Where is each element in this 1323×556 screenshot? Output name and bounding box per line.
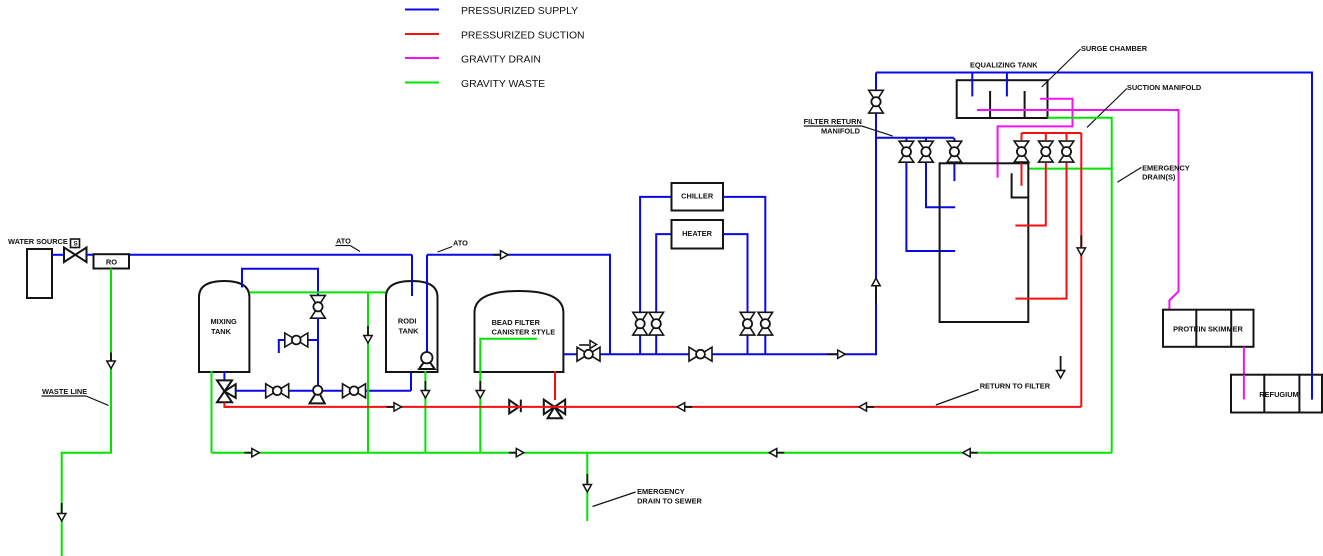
svg-text:TANK: TANK: [211, 327, 232, 336]
pipe: chiller loop left riser (blue): [639, 335, 641, 354]
valve V11 on riser: [869, 90, 884, 101]
svg-text:GRAVITY WASTE: GRAVITY WASTE: [461, 79, 545, 90]
legend swatch: pressurized suction (red): [405, 33, 439, 35]
pipe: pump suction/discharge line (blue): [236, 390, 411, 392]
svg-text:RODI: RODI: [398, 317, 416, 326]
valve V16 suction 2: [1039, 141, 1054, 152]
pipe: bead filter outlet (blue): [563, 353, 876, 355]
pipe: waste line drop to bottom edge (green): [61, 452, 63, 556]
arrow: bead filter drain flow down: [479, 381, 481, 391]
valve V8 chiller right: [758, 312, 773, 323]
pipe: emergency drain to sewer drop (green): [586, 453, 588, 521]
legend swatch: gravity drain (magenta): [405, 57, 439, 59]
pipe: stub branch with valve (blue): [308, 339, 318, 341]
svg-text:ATO: ATO: [453, 239, 468, 248]
pipe: overflow branch down to waste main (green): [367, 292, 369, 452]
leader: suction manifold label: [1087, 89, 1127, 128]
leader: emergency drain to sewer label: [593, 492, 636, 507]
valve V2 on stub branch: [285, 333, 297, 347]
valve V7 heater left: [649, 312, 664, 323]
valve V17 suction 3: [1059, 141, 1074, 152]
svg-text:SUCTION MANIFOLD: SUCTION MANIFOLD: [1127, 83, 1202, 92]
svg-text:RO: RO: [106, 258, 117, 267]
arrow: suction flow down: [1080, 235, 1082, 248]
svg-text:PROTEIN SKIMMER: PROTEIN SKIMMER: [1173, 325, 1243, 334]
pipe: bead filter bottom suction (red): [554, 371, 556, 400]
arrow: ATO line flow right: [493, 254, 501, 256]
pipe: suction drop 3 into sump (red): [1015, 163, 1066, 299]
svg-text:REFUGIUM: REFUGIUM: [1259, 390, 1298, 399]
pipe: sump emergency drain branch (green): [1028, 168, 1111, 170]
pipe: skimmer outlet to refugium (magenta): [1243, 347, 1245, 400]
pipe: manifold drop 2 into sump (blue): [926, 162, 955, 207]
svg-text:BEAD FILTER: BEAD FILTER: [492, 318, 541, 327]
pipe: heater loop right return (blue): [723, 234, 748, 312]
water source tank: [27, 249, 52, 298]
valve V1 on mixing tank fill: [311, 295, 326, 306]
svg-text:WASTE LINE: WASTE LINE: [42, 387, 87, 396]
pipe: supply drop into refugium (blue) - redraw over box: [1311, 375, 1313, 400]
pipe: waste line bottom jog (green): [62, 452, 112, 454]
leader: surge chamber label: [1042, 49, 1081, 87]
arrow: RODI drain flow down: [424, 381, 426, 391]
protein skimmer divider 2: [1230, 310, 1232, 347]
equalizing tank box: [957, 80, 1048, 118]
arrow: return flow right near pump: [387, 406, 395, 408]
pipe: mixing tank to RODI tank overflow (green): [249, 291, 386, 293]
pipe: manifold drop 1 stub (blue): [905, 138, 907, 142]
equalizing tank divider 2: [1024, 91, 1026, 117]
leader: return to filter label: [936, 390, 979, 406]
CHILLER box: [672, 183, 724, 211]
pipe: chiller loop right return (blue): [723, 197, 765, 312]
svg-text:FILTER RETURN: FILTER RETURN: [804, 117, 862, 126]
3-way valve at mixing tank bottom: [217, 380, 232, 391]
legend swatch: pressurized supply (blue): [405, 9, 439, 11]
leader: emergency drains label: [1117, 167, 1141, 182]
arrow: waste line flow down: [110, 353, 112, 362]
pipe: mixing tank bottom outlet (blue): [223, 371, 225, 381]
svg-text:ATO: ATO: [336, 237, 351, 246]
svg-text:EQUALIZING TANK: EQUALIZING TANK: [970, 61, 1038, 70]
svg-text:CHILLER: CHILLER: [681, 192, 714, 201]
pipe: bead filter internal drain (green): [480, 339, 537, 453]
svg-text:PRESSURIZED SUPPLY: PRESSURIZED SUPPLY: [461, 6, 578, 17]
pipe: suction drop 2 stub (red): [1045, 133, 1047, 140]
pipe: suction main down to return (red): [1080, 133, 1082, 407]
pipe: main riser up to return manifold (blue): [875, 73, 877, 356]
pipe: gravity drain to protein skimmer (magenta): [977, 110, 1179, 312]
arrow: waste flow left 2: [970, 452, 978, 454]
pipe: equalizing tank emergency drain (green): [1048, 118, 1112, 453]
svg-text:SURGE CHAMBER: SURGE CHAMBER: [1081, 44, 1148, 53]
pipe: suction drop 1 stub (red): [1021, 133, 1023, 140]
solenoid valve S: [64, 248, 75, 263]
leader: waste line label: [86, 396, 109, 405]
svg-text:WATER SOURCE: WATER SOURCE: [8, 237, 68, 246]
arrow: riser flow up: [875, 285, 877, 303]
valve V3 on pump line: [266, 384, 278, 398]
arrow: overflow branch flow down: [367, 326, 369, 336]
mixing tank vessel: [199, 281, 249, 372]
pipe: RO waste line down (green): [110, 269, 112, 453]
leader: ATO right label: [438, 247, 453, 253]
svg-text:MANIFOLD: MANIFOLD: [821, 127, 861, 136]
pipe: manifold drop 3 stub (blue): [953, 138, 955, 142]
svg-text:DRAIN TO SEWER: DRAIN TO SEWER: [637, 496, 702, 505]
arrow: free flow indicator down: [1060, 356, 1062, 371]
svg-text:CANISTER STYLE: CANISTER STYLE: [492, 327, 556, 336]
valve V9 heater right: [740, 312, 755, 323]
pipe: suction drop 3 stub (red): [1066, 133, 1068, 140]
arrow: main supply flow right: [827, 353, 838, 355]
valve V6 chiller left: [633, 312, 648, 323]
svg-text:TANK: TANK: [399, 327, 420, 336]
equalizing tank divider 1: [989, 91, 991, 117]
pipe: mixing tank left drain (green): [211, 371, 213, 453]
arrow: waste drop flow down: [61, 503, 63, 514]
arrow: return flow left near sump: [866, 406, 874, 408]
refugium divider 2: [1298, 375, 1300, 413]
pipe: equalizing tank feed 1 (blue): [971, 73, 973, 97]
pipe: ATO supply line to system (blue): [427, 255, 610, 354]
legend swatch: gravity waste (green): [405, 82, 439, 84]
pipe: surge chamber drain to sump (magenta): [998, 99, 1073, 178]
pipe: top supply line to refugium (blue): [876, 73, 1312, 400]
svg-text:GRAVITY DRAIN: GRAVITY DRAIN: [461, 55, 541, 66]
pipe: suction manifold header (red): [1022, 132, 1082, 134]
svg-text:DRAIN(S): DRAIN(S): [1142, 173, 1176, 182]
svg-text:HEATER: HEATER: [682, 229, 712, 238]
svg-text:MIXING: MIXING: [211, 317, 238, 326]
arrow: return flow left mid: [684, 406, 692, 408]
protein skimmer divider 1: [1195, 310, 1197, 347]
pipe: manifold drop 1 into sump (blue): [906, 162, 955, 251]
svg-text:S: S: [73, 241, 78, 248]
arrow: sewer drop flow down: [586, 474, 588, 485]
pipe: pump line up into RODI tank bottom (blue): [410, 371, 412, 391]
pipe: fill line down to pump suction (blue): [317, 318, 319, 391]
3-way valve on suction main: [544, 400, 555, 415]
pipe: RO feed drop into RODI tank (blue): [411, 255, 413, 296]
pipe: suction drop 2 into sump (red): [1015, 163, 1045, 226]
pipe: suction drop 1 into weir (red): [1021, 163, 1023, 186]
refugium divider 1: [1263, 375, 1265, 413]
arrow: waste flow left 1: [776, 452, 784, 454]
sump tank box: [940, 163, 1029, 322]
pipe: skimmer outlet into refugium (magenta) - redraw over box: [1243, 375, 1245, 400]
valve V15 suction 1: [1014, 141, 1029, 152]
refugium box: [1231, 375, 1322, 413]
pipe: filter return manifold header (blue): [876, 137, 954, 139]
pipe: manifold drop 2 stub (blue): [925, 138, 927, 142]
svg-text:RETURN TO FILTER: RETURN TO FILTER: [980, 382, 1051, 391]
pipe: suction return main (red): [224, 406, 1081, 408]
pump P1 circle and base: [310, 390, 325, 403]
valve V10 bypass on main line: [689, 347, 701, 361]
sump overflow weir: [1012, 173, 1029, 197]
pipe: gravity waste main (green): [212, 452, 1112, 454]
pipe: supply solenoid to RO and RODI tank (blue): [87, 254, 413, 256]
RO unit box: [94, 254, 130, 268]
bead filter vessel: [475, 291, 564, 372]
leader: filter return manifold label: [862, 126, 893, 136]
valve V5 with flow arrow at bead filter outlet: [577, 347, 589, 361]
pipe: RODI tank drain (green): [424, 371, 426, 453]
valve V4 on pump line: [343, 384, 355, 398]
wire: supply from water source to solenoid valve: [52, 254, 64, 256]
arrow: waste flow right 2: [509, 452, 517, 454]
HEATER box: [672, 220, 724, 249]
protein skimmer box: [1163, 310, 1254, 347]
pipe: suction from 3-way valve (red): [224, 402, 230, 407]
check valve on suction main: [509, 400, 519, 414]
leader: ATO left label: [350, 246, 360, 252]
RODI tank vessel: [386, 281, 438, 372]
pump P2 in RODI tank: [419, 358, 435, 369]
valve V14 manifold 3: [947, 141, 962, 152]
pipe: manifold drop 3 into sump (blue): [953, 162, 955, 181]
valve V13 manifold 2: [919, 141, 934, 152]
pipe: ATO suction drop to pump (blue): [426, 255, 428, 353]
arrow: waste flow right 1: [244, 452, 252, 454]
svg-text:EMERGENCY: EMERGENCY: [637, 487, 685, 496]
svg-text:PRESSURIZED SUCTION: PRESSURIZED SUCTION: [461, 31, 585, 42]
pipe: heater loop left riser (blue): [655, 335, 657, 354]
svg-text:EMERGENCY: EMERGENCY: [1142, 164, 1190, 173]
pipe: equalizing tank feed 2 (blue): [1006, 73, 1008, 97]
pipe: mixing tank top fill riser (blue): [242, 269, 318, 297]
